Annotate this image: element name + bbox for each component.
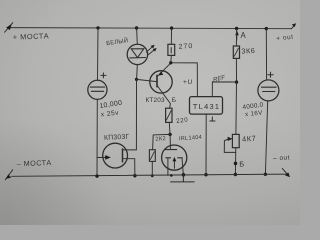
node dot REF junction (235, 80, 238, 83)
wire to 3K6 (235, 29, 237, 47)
resistor R 2К2 (149, 150, 155, 162)
svg-text:+U: +U (183, 79, 193, 86)
LED VD1 белый (127, 44, 156, 64)
transistor VT2 КП303Г JFET (97, 143, 135, 175)
wire bottom rail (12, 174, 289, 176)
wire down to JFET drain (123, 79, 137, 149)
resistor R 3К6 (233, 46, 239, 58)
transistor VT1 КТ203Б (137, 63, 173, 108)
wire TL431 anode down (205, 114, 207, 175)
arrow input plus (top-left) (5, 23, 13, 33)
node dot C2 bottom (264, 173, 267, 176)
wire REF to pot (235, 82, 238, 134)
node dot JFET source bottom (133, 174, 136, 177)
svg-text:4К7: 4К7 (242, 134, 257, 144)
svg-text:Б: Б (172, 97, 176, 104)
wire LED top (136, 28, 139, 44)
wire to 2K2 (153, 134, 171, 149)
node dot top C2 (265, 27, 268, 30)
node A marker (235, 31, 239, 40)
svg-text:– МОСТА: – МОСТА (17, 158, 52, 168)
capacitor C2 4000u (258, 72, 279, 101)
wire R270 bottom (170, 55, 173, 62)
svg-text:2К2: 2К2 (155, 136, 166, 143)
capacitor C1 10000u (88, 73, 107, 100)
node dot top R270 (170, 26, 173, 29)
wire +U to TL431 cathode (171, 63, 198, 97)
ground bar under MOSFET (171, 175, 195, 182)
node dot emitter junction (169, 61, 172, 64)
svg-text:– out: – out (273, 154, 290, 162)
wire REF pin (212, 82, 236, 97)
wire R220 bottom (168, 122, 171, 134)
node dot mosfet left lead bottom (170, 174, 173, 177)
wire pot bottom (234, 148, 236, 175)
node dot gate junction (168, 133, 171, 136)
node base tap (135, 78, 138, 81)
svg-text:3К6: 3К6 (241, 46, 255, 56)
potentiometer R 4К7 (224, 134, 239, 152)
svg-text:TL431: TL431 (193, 102, 220, 111)
node Б (234, 162, 238, 166)
svg-text:КП303Г: КП303Г (104, 134, 130, 142)
wire C1 bottom (96, 99, 98, 176)
anode pin mark (210, 117, 215, 121)
svg-text:270: 270 (178, 43, 193, 51)
resistor R 270 (168, 44, 175, 55)
node dot pot bottom (234, 173, 237, 176)
wire 2K2 bottom (151, 161, 153, 175)
node dot C1 bottom (95, 174, 98, 177)
arrow output minus (bottom-right) (282, 168, 290, 177)
label КТ203 Б (146, 97, 177, 104)
wire top rail (9, 28, 292, 29)
wire C2 top (265, 29, 267, 80)
svg-text:Б: Б (239, 159, 244, 168)
svg-text:А: А (241, 31, 247, 40)
svg-text:+ МОСТА: + МОСТА (13, 31, 50, 41)
wire R270 top (170, 28, 172, 44)
wire C2 bottom (265, 101, 267, 175)
wire C1 top (97, 28, 100, 80)
op-amp U1 TL431 (190, 97, 223, 115)
arrow output plus (top-right) (292, 23, 297, 29)
node dot top LED (135, 26, 138, 29)
node dot anode bottom (204, 173, 207, 176)
arrow input minus (bottom-left) (5, 170, 12, 180)
node dot mosfet ground (182, 173, 186, 177)
node dot 2K2 bottom (151, 174, 154, 177)
resistor R 220 (166, 108, 172, 122)
wire 3K6 to REF (235, 58, 237, 82)
transistor Q3 IRL1404 MOSFET (162, 134, 187, 175)
wire LED cathode down (136, 65, 139, 80)
node dot top A (235, 27, 238, 30)
svg-text:КТ203: КТ203 (146, 97, 166, 104)
node dot top C1 (96, 26, 99, 29)
label 4000,0 x 16V (242, 101, 264, 118)
label 10,000 x 25v (99, 100, 123, 119)
